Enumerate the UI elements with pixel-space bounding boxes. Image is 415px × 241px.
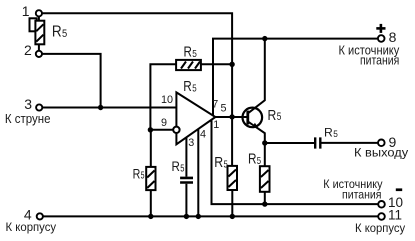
svg-text:4: 4 — [200, 129, 206, 141]
svg-text:5: 5 — [224, 160, 228, 171]
svg-text:К корпусу: К корпусу — [6, 220, 57, 234]
svg-text:5: 5 — [333, 129, 338, 139]
svg-text:R: R — [183, 79, 192, 95]
svg-text:R: R — [268, 107, 277, 124]
svg-text:9: 9 — [161, 117, 167, 129]
svg-text:1: 1 — [213, 119, 219, 131]
svg-text:питания: питания — [342, 187, 382, 201]
svg-text:5: 5 — [192, 49, 197, 60]
svg-text:R: R — [52, 24, 62, 41]
svg-text:5: 5 — [141, 171, 145, 182]
svg-text:R: R — [172, 158, 180, 174]
svg-text:5: 5 — [257, 156, 262, 167]
svg-text:1: 1 — [22, 3, 30, 19]
svg-text:2: 2 — [24, 42, 32, 58]
svg-text:5: 5 — [180, 164, 185, 175]
svg-text:3: 3 — [188, 137, 194, 149]
svg-text:К корпусу: К корпусу — [355, 221, 406, 235]
svg-text:5: 5 — [277, 111, 282, 123]
svg-text:5: 5 — [62, 28, 67, 40]
svg-text:К струне: К струне — [5, 112, 51, 126]
svg-text:10: 10 — [161, 94, 173, 106]
svg-text:R: R — [133, 166, 141, 182]
svg-text:питания: питания — [360, 53, 399, 67]
svg-text:7: 7 — [212, 98, 218, 110]
svg-text:R: R — [184, 45, 192, 61]
svg-text:R: R — [324, 126, 333, 140]
svg-text:5: 5 — [221, 102, 227, 114]
svg-text:R: R — [214, 155, 223, 171]
svg-text:3: 3 — [24, 96, 32, 112]
svg-text:R: R — [248, 152, 257, 168]
svg-text:5: 5 — [192, 83, 197, 94]
svg-text:К выходу: К выходу — [354, 145, 409, 159]
